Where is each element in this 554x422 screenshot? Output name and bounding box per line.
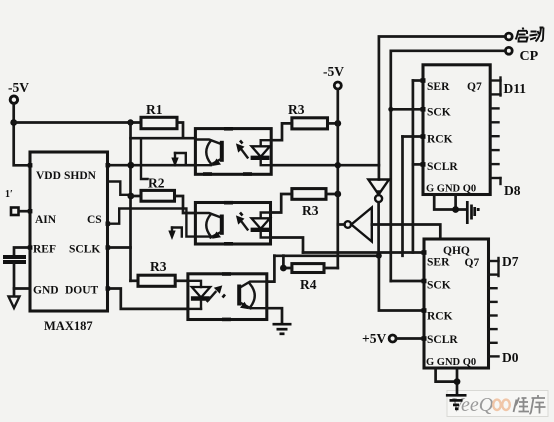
wire DOUT jog to opto3 xyxy=(108,289,188,309)
wire IC1 G pin down xyxy=(434,195,465,210)
svg-text:1′: 1′ xyxy=(5,189,13,200)
IC2 right pin stubs xyxy=(489,261,499,356)
resistor R2 xyxy=(141,190,175,201)
wire opto2 out to SER net xyxy=(271,238,304,253)
svg-text:D0: D0 xyxy=(502,350,519,365)
node R3b -5V xyxy=(334,191,341,198)
svg-text:D11: D11 xyxy=(504,81,527,96)
wire +5V to SCLR xyxy=(396,337,424,340)
svg-text:Q7: Q7 xyxy=(465,257,480,269)
wire GND pin xyxy=(14,287,30,290)
node RCK net xyxy=(376,253,382,259)
wire bus to R3c xyxy=(131,279,139,282)
node SCK xyxy=(388,107,393,112)
wire R3a left to opto1 xyxy=(271,123,292,140)
svg-text:VDD: VDD xyxy=(36,170,61,182)
wire R4 left xyxy=(283,256,292,268)
wire bus vertical left xyxy=(129,123,132,281)
IC1 right pin stubs xyxy=(490,81,500,179)
svg-text:+5V: +5V xyxy=(362,331,386,346)
wire U3 out to -5V bus xyxy=(338,223,345,226)
node -5V junction xyxy=(10,119,17,126)
svg-text:R4: R4 xyxy=(300,277,317,292)
svg-text:R2: R2 xyxy=(148,176,165,191)
transistor in U5 xyxy=(195,213,221,239)
wire R3b left to opto2 xyxy=(271,194,292,213)
wire U3 in from QH xyxy=(372,225,441,240)
light arrow U4 xyxy=(236,141,248,158)
pin bracket D11 xyxy=(499,78,501,96)
terminal -5V right xyxy=(323,64,344,89)
wire SCK bottom pin xyxy=(391,280,424,283)
resistor R3 third xyxy=(138,275,175,286)
svg-text:R3: R3 xyxy=(288,102,305,117)
LED in U4 xyxy=(251,140,272,165)
wire R3b right xyxy=(326,193,338,196)
ground under opto3 xyxy=(273,324,292,334)
wire SCLK to bus xyxy=(108,246,131,249)
ground IC2 xyxy=(446,395,467,409)
svg-text:-5V: -5V xyxy=(8,80,29,95)
node R3a -5V xyxy=(334,120,341,127)
wire RCK top feed xyxy=(401,137,404,256)
pin bracket D7 xyxy=(497,258,499,276)
shift register IC2 box xyxy=(424,239,489,368)
node IC2 ground xyxy=(454,378,461,385)
svg-text:SCK: SCK xyxy=(427,107,451,119)
svg-text:AIN: AIN xyxy=(35,214,57,226)
optocoupler U5 box xyxy=(195,203,270,245)
svg-text:SER: SER xyxy=(427,257,450,269)
svg-text:SCLR: SCLR xyxy=(427,161,458,173)
ground IC1 sideways xyxy=(467,201,474,224)
wire -5V right vertical xyxy=(336,89,339,268)
svg-text:SHDN: SHDN xyxy=(64,170,97,182)
IC1 pin labels xyxy=(426,81,482,195)
wire bus to opto1 top xyxy=(131,137,196,140)
terminal -5V left xyxy=(8,80,29,103)
MAX187 pin labels xyxy=(33,170,102,297)
arrow marker opto2 input xyxy=(168,228,182,241)
svg-text:MAX187: MAX187 xyxy=(44,319,93,333)
wire R3a right xyxy=(328,122,338,125)
resistor R3 mid xyxy=(292,189,326,200)
node SHDN bus xyxy=(127,162,134,169)
wire REF to capacitor xyxy=(14,248,30,257)
node bus top xyxy=(127,119,133,125)
wire IC1 GND pin down xyxy=(454,195,457,210)
svg-text:SCK: SCK xyxy=(427,280,451,292)
wire stub from R1 row down xyxy=(141,138,148,179)
optocoupler U4 box xyxy=(195,129,271,175)
svg-text:R3: R3 xyxy=(302,203,319,218)
ground arrow under capacitor xyxy=(9,297,20,309)
label 启动 xyxy=(516,28,544,42)
wire RCK top pin xyxy=(403,135,424,138)
svg-text:Q7: Q7 xyxy=(467,81,482,93)
light arrow U6 xyxy=(208,285,226,301)
wire opto3 emitter to ground xyxy=(267,308,282,323)
watermark box xyxy=(447,391,548,417)
svg-text:G GND Q0: G GND Q0 xyxy=(426,184,476,195)
svg-text:-5V: -5V xyxy=(323,64,344,79)
pin nubs MAX187 xyxy=(28,163,110,291)
terminal +5V xyxy=(362,331,396,346)
wire U6 bottom inside xyxy=(188,308,201,310)
inverter U2 xyxy=(368,180,389,203)
svg-text:DOUT: DOUT xyxy=(65,285,99,297)
LED in U6 xyxy=(188,281,210,309)
pin nubs U5 xyxy=(224,201,233,246)
pin corner D8 xyxy=(499,178,501,184)
wire IC2 GND pin down xyxy=(456,368,459,395)
resistor R3 top xyxy=(292,118,328,129)
wire opto3 collector up xyxy=(267,256,275,282)
watermark chinese 维库 xyxy=(514,395,546,414)
terminal CP xyxy=(505,47,538,64)
transistor in U6 xyxy=(239,282,267,310)
wire SCLR top pin xyxy=(413,163,423,166)
wire RCK net horizontal xyxy=(274,254,379,257)
capacitor C1 xyxy=(3,257,26,262)
wire R1 out xyxy=(177,123,183,139)
pin nubs U4 xyxy=(203,127,252,176)
svg-text:G GND Q0: G GND Q0 xyxy=(426,357,476,368)
svg-text:CS: CS xyxy=(87,214,102,226)
svg-text:GND: GND xyxy=(33,285,59,297)
wire SHDN jog to R2 row xyxy=(108,182,132,195)
wire 启动 xyxy=(379,37,506,180)
resistor R1 xyxy=(141,117,177,128)
svg-text:D8: D8 xyxy=(504,183,521,198)
wire R2 to bus xyxy=(131,195,142,198)
wire CS jog to opto2 xyxy=(108,209,196,237)
optocoupler U6 box xyxy=(188,274,267,320)
wire SHDN to opto1 xyxy=(108,164,196,167)
svg-text:SCLK: SCLK xyxy=(69,244,100,256)
node opto1 out xyxy=(335,162,341,168)
wire IC2 G pin down xyxy=(436,368,457,382)
pin nubs U6 xyxy=(222,272,231,321)
transistor in U4 xyxy=(195,140,221,167)
wire SER top pin xyxy=(413,79,423,82)
resistor R4 xyxy=(292,264,324,273)
terminal 启动 xyxy=(505,33,512,40)
wire AIN xyxy=(19,210,30,213)
light arrow U5 xyxy=(236,213,248,230)
inverter U3 xyxy=(345,208,372,242)
pin nubs IC1 left xyxy=(421,78,426,167)
wire SER net horizontal xyxy=(303,251,424,254)
terminal AIN input xyxy=(11,208,19,216)
wire SCK top pin xyxy=(391,108,423,111)
shift register IC1 box xyxy=(423,65,490,195)
svg-text:CP: CP xyxy=(520,49,539,64)
wire RCK net down to RCK pin xyxy=(379,256,424,311)
node IC1 ground xyxy=(452,206,459,213)
node R2 row xyxy=(127,193,134,200)
svg-text:RCK: RCK xyxy=(427,134,453,146)
svg-text:SER: SER xyxy=(427,81,450,93)
wire CP xyxy=(391,51,506,281)
svg-text:D7: D7 xyxy=(502,254,519,269)
wire -5V down to node xyxy=(14,104,30,165)
wire capacitor to ground xyxy=(13,264,16,297)
pin nubs IC2 left xyxy=(422,250,427,341)
wire R2 out to opto2 xyxy=(175,196,196,213)
svg-text:SCLR: SCLR xyxy=(427,334,458,346)
svg-text:R1: R1 xyxy=(146,102,163,117)
wire R4 right xyxy=(324,267,338,270)
op-amp U1 MAX187 box xyxy=(30,152,108,311)
wire R3c to opto3 xyxy=(175,279,188,282)
svg-text:QHQ: QHQ xyxy=(443,245,470,257)
wire opto1 out to inverter xyxy=(271,164,379,167)
ground IC1 tick xyxy=(477,208,480,211)
IC2 pin labels xyxy=(426,257,479,369)
arrow marker opto1 input xyxy=(171,153,186,167)
svg-text:RCK: RCK xyxy=(427,311,453,323)
wire SER vertical xyxy=(412,81,415,253)
LED in U5 xyxy=(251,213,271,238)
wire U2 out xyxy=(377,202,380,255)
svg-text:R3: R3 xyxy=(150,259,167,274)
wire -5V to R1 row xyxy=(14,121,141,124)
node R4 xyxy=(280,265,287,272)
svg-text:REF: REF xyxy=(33,244,56,256)
